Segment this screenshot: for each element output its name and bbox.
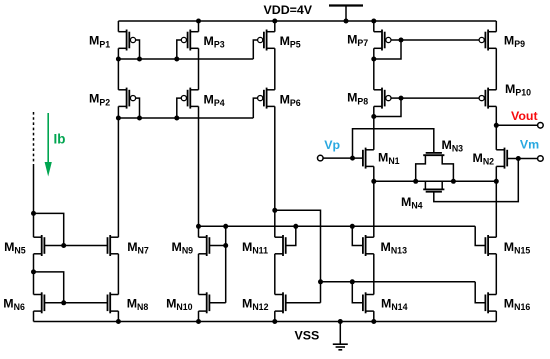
nmos MN8 — [110, 294, 118, 296]
wire column x374 — [373, 311, 375, 321]
wire column x198 — [198, 311, 200, 321]
node tail MN3 left — [413, 179, 418, 184]
wire Vp input — [323, 157, 363, 159]
wire column x118 — [117, 48, 119, 90]
wire column x118 — [117, 21, 119, 32]
wire MN16 gate riser — [475, 282, 485, 303]
VDD supply symbol — [329, 4, 363, 6]
svg-text:Ib: Ib — [54, 132, 66, 147]
wire column x275 — [274, 311, 276, 321]
svg-text:Vm: Vm — [520, 137, 539, 151]
wire MN6-MN8 gate row — [44, 302, 107, 304]
node row2 MP2 gate — [137, 116, 142, 121]
nmos MN15 — [488, 236, 496, 238]
wire column x496 — [495, 166, 497, 237]
nmos MN6 — [34, 294, 42, 296]
wire column x198 — [198, 254, 200, 295]
node row2 MP4 gate — [174, 116, 179, 121]
svg-text:VSS: VSS — [295, 329, 320, 343]
node MP8 drain — [371, 114, 376, 119]
ground — [339, 322, 341, 344]
node bias row MN9 gate col — [223, 224, 228, 229]
wire nmos mirror bias row — [321, 281, 476, 283]
wire column x374 — [373, 48, 375, 90]
node MP6 drain — [272, 208, 277, 213]
node MN9 gate — [223, 243, 228, 248]
wire MP6 drain row — [275, 210, 321, 302]
node rail MP5 — [272, 19, 277, 24]
pmos MP3 — [190, 31, 198, 33]
wire column x275 — [274, 21, 276, 32]
node bias row MN13 gate — [350, 224, 355, 229]
node MN5 gate — [61, 243, 66, 248]
nmos MN9 — [199, 236, 207, 238]
svg-text:Vout: Vout — [511, 109, 538, 123]
wire column x374 — [373, 254, 375, 295]
svg-text:VDD=4V: VDD=4V — [264, 3, 313, 17]
nmos MN5 — [34, 236, 42, 238]
node Vout — [494, 123, 499, 128]
power rail VDD — [118, 20, 496, 22]
nmos MN3 — [423, 154, 444, 156]
wire MP1 gate — [135, 40, 139, 59]
node row1 MP1 drain — [116, 57, 121, 62]
current arrow Ib — [47, 113, 49, 164]
nmos MN7 — [110, 236, 118, 238]
wire MP7 gate — [391, 39, 401, 41]
node rail MN8 — [116, 319, 121, 324]
wire MN9 gate — [209, 245, 225, 247]
pmos MP2 — [118, 89, 126, 91]
pmos MP4 — [190, 89, 198, 91]
node rail MP7 — [371, 19, 376, 24]
wire column x118 — [117, 106, 119, 237]
wire tail row — [374, 180, 497, 182]
wire column x33 — [33, 311, 35, 321]
wire column x33 — [33, 164, 35, 237]
wire column x374 — [373, 166, 375, 237]
wire node row1 — [118, 58, 253, 60]
wire MP7 gate row — [401, 39, 479, 41]
node rail MN10 — [196, 319, 201, 324]
wire MN11 gate — [286, 226, 296, 245]
node MN6 gate — [61, 300, 66, 305]
wire column x275 — [274, 48, 276, 90]
wire MP7 drain loop — [374, 40, 401, 59]
node tail MN2 — [494, 179, 499, 184]
wire column x496 — [495, 254, 497, 295]
wire MP5 gate riser — [253, 40, 257, 59]
pmos MP10 — [488, 89, 496, 91]
pmos MP1 — [118, 31, 126, 33]
wire MN13 gate — [352, 226, 363, 245]
wire MP8 gate — [391, 97, 401, 99]
node tail MN1 — [371, 179, 376, 184]
nmos MN11 — [275, 236, 283, 238]
wire MP6 gate riser — [253, 98, 257, 118]
wire node row2 — [118, 117, 253, 119]
nmos MN12 — [275, 294, 283, 296]
wire MN12 gate — [286, 302, 321, 304]
node rail MN14 — [371, 319, 376, 324]
wire MN1 gate to MN3 gate — [353, 129, 434, 158]
node MN2 gate — [516, 156, 521, 161]
nmos MN2 — [496, 149, 504, 151]
node rail VDD — [344, 19, 349, 24]
pmos MP6 — [267, 89, 275, 91]
wire column x496 — [495, 48, 497, 90]
wire column x198 — [198, 21, 200, 32]
node mirror row MN12 — [318, 279, 323, 284]
node MN6 drain — [31, 269, 36, 274]
nmos MN14 — [366, 294, 374, 296]
terminal Vout — [538, 123, 544, 129]
wire MP8 gate row — [401, 97, 479, 99]
nmos MN13 — [366, 236, 374, 238]
wire MN14 gate — [352, 282, 363, 303]
wire column x275 — [274, 106, 276, 237]
wire column x118 — [117, 254, 119, 295]
wire MP8 drain loop — [374, 98, 401, 116]
node rail gnd — [338, 319, 343, 324]
wire column x198 — [198, 106, 200, 237]
wire column x496 — [495, 21, 497, 32]
wire MP4 gate — [177, 98, 182, 118]
wire column x33 — [33, 254, 35, 295]
node MP7 gate — [399, 38, 404, 43]
wire MP2 gate — [135, 98, 139, 118]
wire nmos cascode bias row — [199, 225, 476, 227]
node rail MN12 — [272, 319, 277, 324]
node MN5 drain — [31, 211, 36, 216]
wire column x496 — [495, 106, 497, 149]
wire column x374 — [373, 106, 375, 149]
nmos MN4 — [423, 188, 444, 190]
node MN1 gate — [350, 156, 355, 161]
svg-text:Vp: Vp — [324, 138, 340, 152]
power rail VSS — [34, 321, 497, 323]
wire MN10 gate — [209, 302, 225, 304]
pmos MP9 — [488, 31, 496, 33]
wire MN15 gate riser — [475, 226, 485, 245]
wire Vout — [496, 124, 538, 126]
terminal Vp — [318, 155, 324, 161]
wire MN6 diode — [34, 272, 64, 303]
node row2 MP2 drain — [116, 116, 121, 121]
node row1 MP1 gate — [137, 57, 142, 62]
wire Vm input — [507, 158, 538, 160]
wire MN5 diode — [34, 213, 64, 245]
node mirror row MN14 gate — [350, 279, 355, 284]
node MP8 gate — [399, 96, 404, 101]
nmos MN16 — [488, 294, 496, 296]
wire column x496 — [495, 311, 497, 321]
node row1 MP3 gate — [174, 57, 179, 62]
wire MN9 MN10 gate column — [225, 226, 227, 302]
wire MP3 gate — [177, 40, 182, 59]
nmos MN10 — [199, 294, 207, 296]
wire MN4 gate to Vm — [434, 159, 519, 202]
wire column x275 — [274, 254, 276, 295]
wire column x118 — [117, 311, 119, 321]
pmos MP5 — [267, 31, 275, 33]
current source Ib dashed lead — [33, 112, 35, 164]
wire column x198 — [198, 48, 200, 90]
wire column x374 — [373, 21, 375, 32]
node bias row MN11 gate — [293, 224, 298, 229]
wire MN5-MN7 gate row — [44, 245, 107, 247]
node MP7 drain — [371, 57, 376, 62]
terminal Vm — [538, 156, 544, 162]
node rail MP3 — [196, 19, 201, 24]
node tail MN3 right — [451, 179, 456, 184]
node bias row MN9 drain — [196, 224, 201, 229]
nmos MN1 — [366, 149, 374, 151]
pmos MP8 — [374, 89, 382, 91]
pmos MP7 — [374, 31, 382, 33]
